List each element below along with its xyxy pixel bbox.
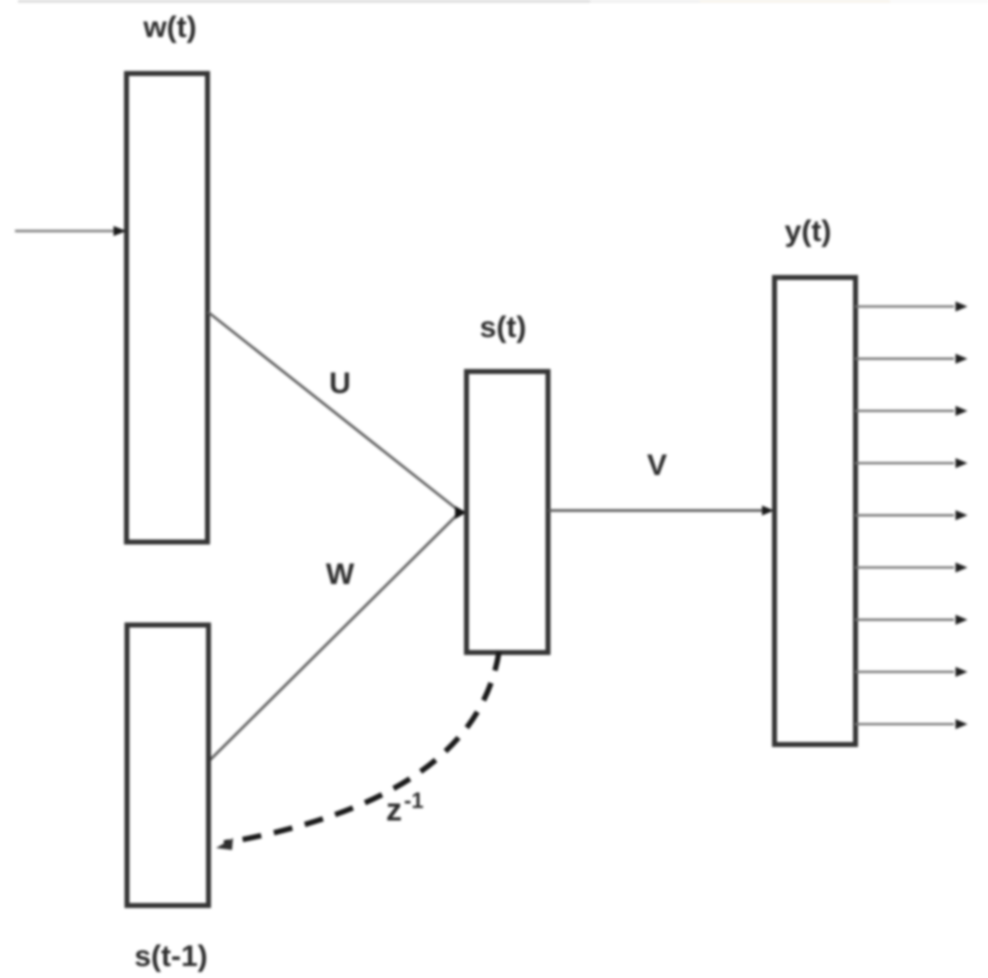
arrowhead into s(t) xyxy=(455,506,467,519)
svg-text:s(t): s(t) xyxy=(480,311,527,344)
wire V xyxy=(549,506,775,516)
rect s(t-1) xyxy=(127,625,209,906)
output arrows xyxy=(855,302,968,730)
svg-text:V: V xyxy=(647,449,667,482)
rect w(t) xyxy=(127,74,208,543)
wire z-1 dashed feedback xyxy=(216,652,499,850)
wire W xyxy=(210,514,458,760)
rect y(t) xyxy=(775,278,856,745)
wire input arrow xyxy=(15,226,127,236)
svg-text:s(t-1): s(t-1) xyxy=(134,940,207,973)
rect s(t) xyxy=(467,372,549,653)
top crop band xyxy=(18,0,988,3)
svg-text:z: z xyxy=(386,792,402,828)
svg-text:W: W xyxy=(326,558,355,591)
svg-text:w(t): w(t) xyxy=(142,11,196,44)
svg-text:y(t): y(t) xyxy=(785,215,832,248)
svg-text:U: U xyxy=(329,367,351,400)
svg-text:-1: -1 xyxy=(404,788,424,813)
label z^-1 xyxy=(386,788,424,828)
wire U xyxy=(208,312,458,510)
